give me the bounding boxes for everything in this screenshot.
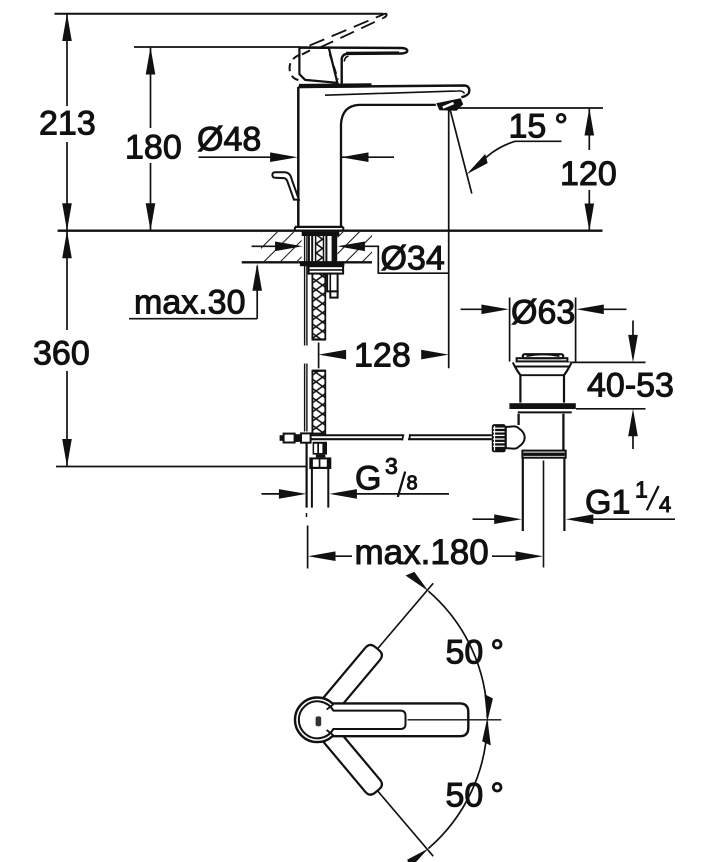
node 360 bottom reference line <box>56 466 307 468</box>
component knob connector <box>506 426 525 448</box>
node dimension 180 line <box>150 47 152 128</box>
component waste cap skirt <box>517 358 568 361</box>
node rotated handle edge stub upper <box>327 704 334 709</box>
component mounting nut flange <box>300 262 345 267</box>
node faucet body left edge <box>297 87 300 227</box>
svg-text:40-53: 40-53 <box>587 367 674 405</box>
svg-text:360: 360 <box>33 335 90 373</box>
node 50 deg arc lower <box>428 722 487 849</box>
component faucet handle body <box>299 48 337 83</box>
component waste knurled knob <box>492 424 506 452</box>
component shank sleeve in counter <box>308 234 310 263</box>
svg-text:max.30: max.30 <box>134 284 246 322</box>
component pop-up rod lower section <box>304 364 306 432</box>
svg-text:G1: G1 <box>585 484 630 522</box>
component supply tube <box>311 469 313 508</box>
node faucet raised handle dashed lower line <box>320 18 384 48</box>
component rod clevis <box>280 435 284 441</box>
node waste flange underside line <box>518 411 572 413</box>
component shank nut 2 <box>309 457 331 469</box>
node spout underside curve <box>341 105 436 227</box>
component pop-up rod knob <box>272 172 299 199</box>
svg-text:213: 213 <box>39 105 96 143</box>
node dimension 120 <box>452 107 603 109</box>
component shank nut 1 <box>313 442 327 455</box>
node waste centerline <box>543 461 545 568</box>
node 180 reference line (lever top) <box>134 46 300 48</box>
node raised handle body right dash <box>330 54 338 80</box>
component threaded shank upper <box>312 274 325 340</box>
component logo mark <box>316 716 322 726</box>
svg-text:8: 8 <box>407 473 418 495</box>
node water stream 15 deg line <box>450 110 472 193</box>
node dimension 213 line <box>66 14 68 107</box>
component waste cone rim <box>513 362 572 366</box>
svg-text:180: 180 <box>125 129 182 167</box>
node raised handle hidden dash <box>302 48 315 55</box>
component waste upper cylinder <box>515 366 570 402</box>
node water stream vertical line <box>448 110 450 368</box>
component waste push cap <box>523 354 563 358</box>
component faucet spout body outline <box>298 86 469 98</box>
node dimension D48 <box>199 156 273 158</box>
node top view centerline <box>408 719 502 721</box>
svg-text:1: 1 <box>635 477 648 503</box>
svg-text:128: 128 <box>354 337 411 375</box>
component mounting nut body <box>309 266 344 273</box>
svg-text:15°: 15° <box>509 108 568 146</box>
node faucet raised handle dashed upper line <box>310 13 387 45</box>
node dimension max.30 <box>129 318 257 320</box>
node dimension 360 line <box>66 231 68 330</box>
node countertop top line <box>58 230 603 232</box>
node dimension G3/8 <box>262 493 284 495</box>
node spout top thick band <box>299 83 372 88</box>
node handle inner keyhole outline <box>299 701 406 738</box>
svg-text:120: 120 <box>560 155 617 193</box>
component threaded shank lower <box>312 371 325 434</box>
node top view 50 deg line upper <box>332 583 434 703</box>
node countertop hatching right <box>338 232 373 261</box>
node dimension 128 <box>318 343 320 369</box>
node base gasket black band <box>302 232 340 236</box>
node top reference line (handle max height) <box>55 13 384 15</box>
component faucet lever handle <box>300 47 408 84</box>
component outlet fitting <box>327 274 338 292</box>
component top view handle and body outline <box>295 698 468 743</box>
node faucet raised handle dashed body arc <box>290 55 300 80</box>
node countertop hatching left <box>261 232 302 261</box>
svg-text:50°: 50° <box>446 634 504 672</box>
component rotated handle upper <box>323 642 384 710</box>
svg-text:Ø48: Ø48 <box>197 121 261 159</box>
node dimension D63 <box>509 298 511 362</box>
component rotated handle lower <box>323 729 384 797</box>
node faucet raised handle dashed tip <box>384 13 387 18</box>
node shank band <box>316 455 325 458</box>
node 50 deg arc upper <box>428 591 487 718</box>
node dimension G1 1/4 <box>473 518 497 520</box>
svg-text:Ø34: Ø34 <box>381 240 445 278</box>
node countertop bottom line <box>242 261 372 263</box>
component pop-up rod upper section <box>304 234 306 346</box>
component faucet base plate <box>295 226 343 228</box>
component waste slip ring <box>522 451 565 458</box>
node dimension max.180 <box>307 526 309 569</box>
node dimension 40-53 <box>567 361 646 363</box>
svg-text:max.180: max.180 <box>355 533 489 572</box>
component aerator <box>436 98 463 111</box>
component waste tailpipe <box>522 458 524 531</box>
svg-text:4: 4 <box>659 492 671 517</box>
component waste body <box>519 414 564 451</box>
svg-text:50°: 50° <box>446 777 504 815</box>
node rotated handle edge stub lower <box>327 730 334 735</box>
node spout chamfer line <box>325 91 465 95</box>
component waste flange seal <box>509 403 575 409</box>
node pop-up rod lower line <box>306 443 308 508</box>
svg-text:3: 3 <box>385 453 398 479</box>
component pop-up horizontal rod <box>309 434 404 436</box>
svg-text:Ø63: Ø63 <box>511 294 575 332</box>
node dimension 15 deg leader <box>515 140 562 142</box>
node dimension D34 <box>252 245 278 247</box>
svg-text:G: G <box>355 460 381 498</box>
node top view 50 deg line lower <box>332 737 434 857</box>
